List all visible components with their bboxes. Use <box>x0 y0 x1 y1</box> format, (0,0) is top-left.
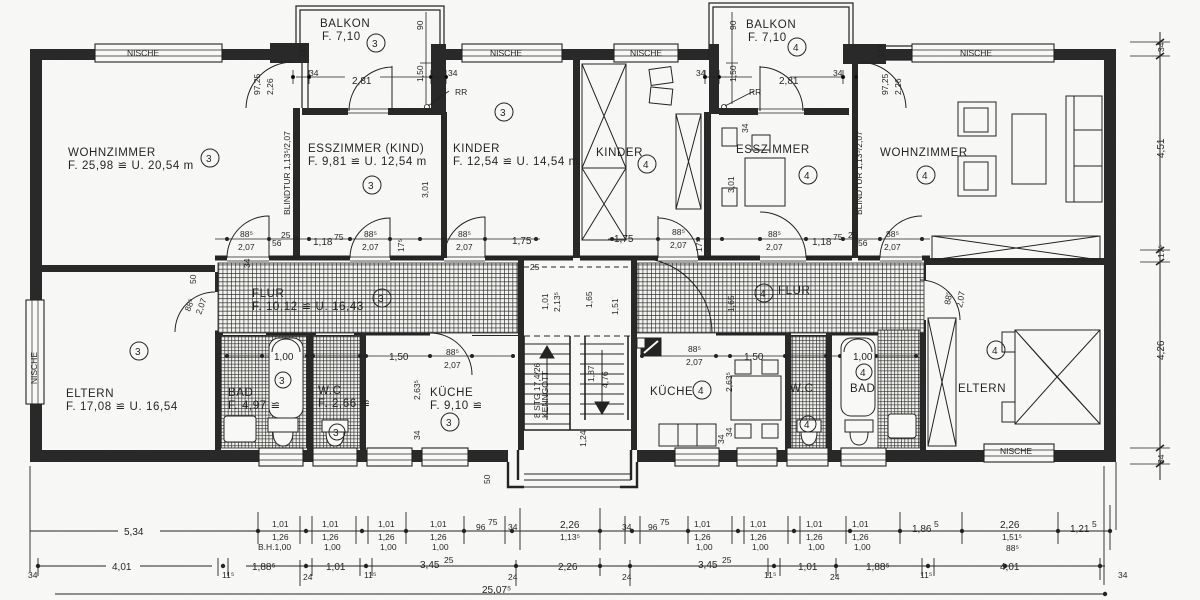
wall block: wohnzimmer left top corner <box>270 43 309 63</box>
extension lines <box>30 462 1116 585</box>
table esszimmer right <box>745 158 785 206</box>
door arc kueche right <box>637 258 712 333</box>
door arc wohnzimmer top left small <box>246 62 292 108</box>
door arc balcony left <box>349 66 392 111</box>
stairs <box>524 267 631 430</box>
circled 3 wohnzimmer left <box>201 149 219 167</box>
sideboard wohnzimmer right <box>932 236 1100 260</box>
wall: ELTERN/BAD left vertical <box>215 272 221 292</box>
wall: outer left <box>30 49 42 462</box>
wall: WOHNZIMMER/ELTERN left horizontal <box>30 265 215 272</box>
window bad right bottom <box>841 448 886 466</box>
wardrobe eltern right <box>928 318 956 446</box>
door arc esszimmer left <box>350 218 390 258</box>
fixtures left apartment <box>224 338 916 446</box>
kueche right table <box>731 376 781 420</box>
wall: balcony left parapet lower <box>302 63 308 108</box>
dim row 1 ticks <box>258 505 1110 550</box>
dim line sanitary row left <box>224 355 515 357</box>
wall: stair/KUECHE right <box>631 258 637 450</box>
wall: ESSZIMMER/WOHNZIMMER right <box>852 64 858 258</box>
balcony left outline <box>296 6 444 62</box>
window NISCHE top kinder right <box>614 44 678 62</box>
dim lines balcony left <box>291 12 449 110</box>
bathtub bad right <box>841 338 875 416</box>
bed eltern right <box>1015 330 1100 424</box>
furniture right apartment <box>582 64 1102 446</box>
window wc left bottom <box>313 448 357 466</box>
wall: outer bottom segments <box>30 450 508 462</box>
door arc wohnzimmer right <box>880 216 922 258</box>
window kueche left bottom 1 <box>367 448 412 466</box>
bed kinder right <box>582 64 626 240</box>
kueche right stove <box>641 338 661 356</box>
door arc kueche left <box>430 333 472 375</box>
hatch: WC left <box>313 336 360 448</box>
wall: corridor bottom <box>215 331 880 336</box>
sink bad left <box>224 416 256 442</box>
stair arrow down <box>595 350 609 414</box>
toilet wc right <box>797 420 821 445</box>
wall: esszimmer left facade (balcony door wall) <box>302 108 348 115</box>
wardrobe kinder right <box>676 114 701 209</box>
door sills corridor <box>227 256 922 258</box>
chairs esszimmer right <box>722 128 737 146</box>
room labels <box>29 18 1032 456</box>
table wohnzimmer right <box>1012 114 1046 184</box>
chairs kinder right <box>649 67 673 86</box>
window NISCHE bottom right <box>984 444 1054 462</box>
total dim line <box>55 593 1105 595</box>
wall: KINDER/ESSZIMMER right <box>704 112 711 258</box>
hatch: BAD left <box>221 336 307 448</box>
window NISCHE top wohnzimmer right <box>912 44 1054 62</box>
toilet wc left <box>322 420 348 446</box>
dim line door row left <box>215 238 540 240</box>
stair entrance walls <box>508 450 637 487</box>
armchair 2 wohnzimmer right <box>958 156 996 196</box>
dim row 1 line <box>30 530 1110 532</box>
window kueche left bottom 2 <box>422 448 468 466</box>
door arcs top row (corridor doors) <box>175 62 960 375</box>
wall: corridor top <box>215 256 930 261</box>
wall block: balcony left right pier <box>431 44 446 114</box>
toilet bad right <box>845 420 873 445</box>
hatch: BAD right strip <box>878 330 920 448</box>
dim row 2 ticks <box>38 558 1100 586</box>
door arc balcony right <box>760 66 803 111</box>
wall block: kinder right / balcony pier <box>709 44 719 114</box>
wall: KUECHE/stair left <box>518 258 524 450</box>
stair dashed landing line <box>524 335 631 337</box>
dim dots rows <box>36 529 1112 596</box>
dim line sanitary row right <box>640 355 918 357</box>
stair arrow up <box>540 346 554 420</box>
door arc kinder left <box>444 217 485 258</box>
dimension line right vertical <box>1159 32 1161 480</box>
stair flight right <box>580 344 624 414</box>
window NISCHE top kinder left <box>462 44 562 62</box>
right dimension column <box>1130 32 1170 480</box>
door sill balcony right <box>758 109 804 113</box>
door arc eltern right (corridor end) <box>920 280 960 320</box>
wall: WOHNZIMMER right bottom <box>924 258 1104 265</box>
door arc eltern left (corridor end) <box>175 292 215 332</box>
wall: ESSZIMMER/KINDER left <box>441 112 447 258</box>
wall: WC/BAD right <box>826 333 832 450</box>
hatch: FLUR left <box>218 263 518 333</box>
wall block: esszimmer right / wohnzimmer <box>843 44 886 64</box>
door arc esszimmer right <box>760 212 806 258</box>
stair flight left <box>524 344 570 424</box>
armchair 1 wohnzimmer right <box>958 102 996 136</box>
window wc right bottom <box>787 448 828 466</box>
wall: party wall centre top <box>573 60 580 258</box>
door arc wohnzimmer left <box>227 216 269 258</box>
door arc wohnzimmer top right small <box>860 62 906 108</box>
dimension texts small scattered <box>182 12 966 484</box>
wall: outer right <box>1104 49 1116 462</box>
door sill balcony left <box>348 109 388 113</box>
sofa wohnzimmer right <box>1066 96 1102 202</box>
dim dots door rows <box>225 237 924 358</box>
bottom dimension rows <box>30 462 1116 596</box>
window NISCHE left wall vertical <box>26 300 44 404</box>
balcony right outline <box>709 3 853 58</box>
window NISCHE top left <box>95 44 222 62</box>
wall: BAD/WC left <box>307 333 313 450</box>
wall: BAD/ELTERN right <box>920 265 926 280</box>
wall: WC/KUECHE left <box>360 333 366 450</box>
wall: KUECHE/WC right <box>785 333 791 450</box>
hatch: FLUR right <box>637 263 924 333</box>
dim line door row right <box>608 238 930 240</box>
window bad left bottom <box>259 448 303 466</box>
toilet bad left <box>268 418 298 446</box>
wall: outer top segments <box>30 49 296 60</box>
sink strip right <box>888 414 916 438</box>
bathtub bad left <box>269 338 303 418</box>
kueche right counter <box>659 424 716 446</box>
door arc kinder right <box>658 216 698 258</box>
window kueche right bottom <box>675 448 719 466</box>
dim lines balcony right <box>703 12 857 110</box>
hatch: WC right <box>791 336 826 448</box>
dim row 2 line <box>38 565 1105 567</box>
wall: esszimmer right facade (balcony door wall) <box>719 108 758 115</box>
wall: WOHNZIMMER/ESSZIMMER left <box>293 108 300 258</box>
